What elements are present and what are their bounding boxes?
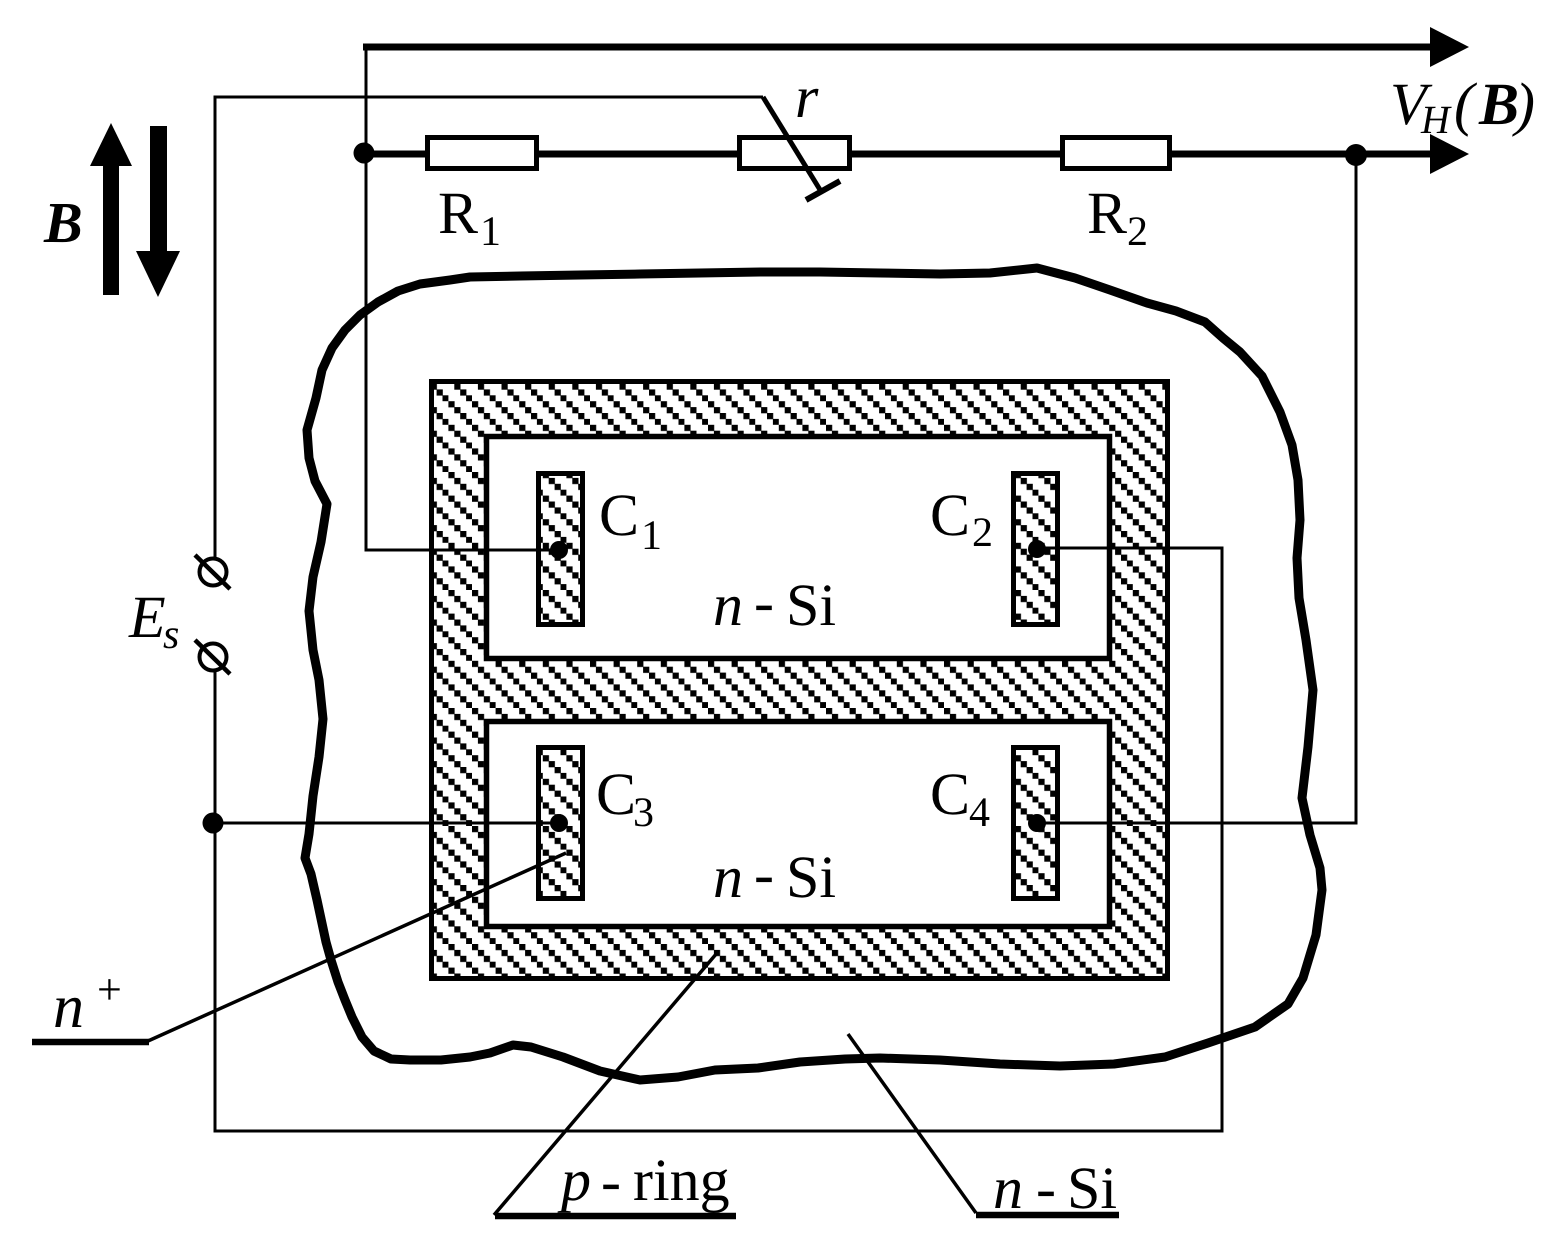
contact C2 (n+) — [1014, 474, 1058, 625]
wire: vertical from top wire through node down to C1 — [366, 44, 559, 550]
wire: top output (VH) — [363, 44, 1433, 51]
leader line n-Si substrate — [848, 1034, 976, 1213]
svg-text:Si: Si — [786, 572, 836, 638]
pin dot C4 — [1028, 814, 1046, 832]
svg-text:R: R — [438, 180, 478, 246]
B field up arrow — [103, 160, 119, 295]
Es source terminal bottom — [200, 644, 227, 671]
svg-text:2: 2 — [1127, 209, 1148, 255]
svg-text:C: C — [596, 761, 636, 827]
contact C4 (n+) — [1014, 748, 1058, 899]
svg-text:+: + — [97, 965, 122, 1014]
n-Si wafer blob outline — [305, 268, 1322, 1080]
svg-text:2: 2 — [972, 510, 993, 556]
svg-text:B: B — [1478, 71, 1519, 137]
svg-text:r: r — [795, 64, 819, 130]
wire: lower output with R1, r, R2 — [364, 151, 1433, 158]
svg-text:-: - — [754, 841, 774, 907]
node at Es rail / C3 tap — [203, 813, 224, 834]
svg-text:C: C — [930, 482, 970, 548]
svg-text:Si: Si — [786, 844, 836, 910]
wire: left rail below Es down, bottom run, right side up to C2 — [215, 548, 1222, 1131]
svg-text:p: p — [557, 1147, 591, 1213]
resistor R2 — [1063, 138, 1170, 169]
wire: C4 to right rail up to R2 node — [1037, 155, 1356, 823]
svg-text:B: B — [43, 190, 83, 255]
svg-text:E: E — [128, 584, 166, 650]
pin dot C3 — [550, 814, 568, 832]
leader line n+ — [32, 1039, 149, 1046]
svg-text:1: 1 — [641, 513, 662, 559]
leader line p-ring — [494, 953, 717, 1215]
svg-text:s: s — [163, 612, 179, 658]
svg-text:n: n — [713, 572, 743, 638]
Es source terminal top — [200, 559, 227, 586]
contact C3 (n+) — [539, 748, 583, 899]
node at R1 left / C1 tap — [354, 143, 375, 164]
svg-text:3: 3 — [633, 790, 654, 836]
wire: left rail from r wiper top, down to Es switch — [215, 97, 763, 559]
svg-text:H: H — [1420, 97, 1452, 142]
svg-text:-: - — [754, 569, 774, 635]
pin dot C2 — [1028, 540, 1046, 558]
svg-text:1: 1 — [480, 209, 501, 255]
svg-text:4: 4 — [969, 790, 990, 836]
trimmer wiper diagonal and tick — [763, 97, 822, 193]
svg-text:-: - — [1036, 1155, 1056, 1221]
svg-text:n: n — [993, 1155, 1023, 1221]
svg-text:n: n — [53, 973, 84, 1041]
n-Si bottom window — [487, 722, 1110, 927]
svg-text:C: C — [930, 761, 970, 827]
p-ring hatched guard ring — [432, 382, 1168, 979]
n-Si top window — [487, 437, 1110, 659]
contact C1 (n+) — [539, 474, 583, 625]
svg-text:): ) — [1512, 71, 1535, 137]
wire: node to C3 — [213, 822, 559, 825]
resistor R1 — [428, 138, 537, 169]
svg-text:C: C — [599, 482, 639, 548]
svg-text:Si: Si — [1067, 1155, 1117, 1221]
resistor r (trimmer) — [740, 138, 850, 169]
svg-text:n: n — [713, 844, 743, 910]
B field down arrow — [150, 126, 167, 254]
svg-text:R: R — [1087, 180, 1127, 246]
svg-text:ring: ring — [633, 1147, 730, 1213]
svg-text:-: - — [601, 1148, 621, 1214]
node at R2 right / C4 tap — [1345, 144, 1367, 166]
pin dot C1 — [550, 541, 568, 559]
